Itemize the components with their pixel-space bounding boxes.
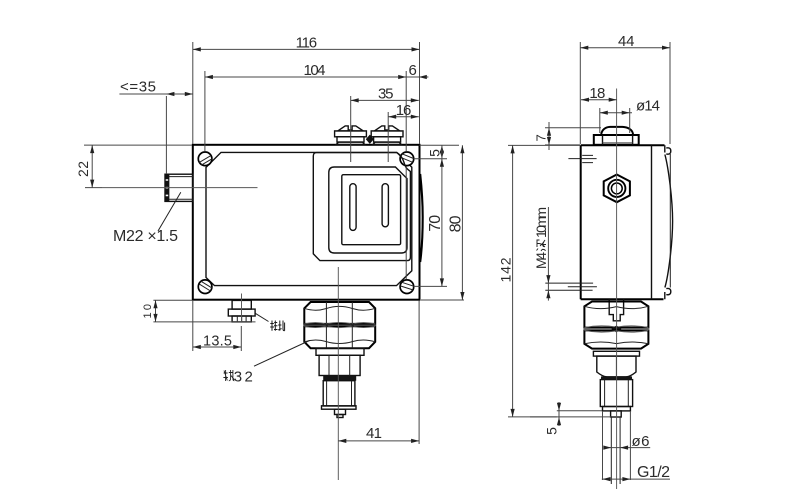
dim G1/2 <box>602 411 670 481</box>
svg-text:<=35: <=35 <box>120 79 156 96</box>
dim le35 cable gland <box>119 79 192 175</box>
side washer <box>593 351 639 356</box>
tube centerline <box>102 187 258 189</box>
dim 5 top right <box>414 145 459 159</box>
washer below nuts front <box>316 348 364 355</box>
hex nut 2 front <box>304 324 375 349</box>
dim 44 <box>580 33 670 144</box>
svg-text:13.5: 13.5 <box>203 333 232 349</box>
hex nut 1 front <box>304 302 375 324</box>
side cap dome <box>601 127 633 135</box>
dim 22 <box>75 145 192 188</box>
dim 6 <box>406 62 428 79</box>
svg-text:ø6: ø6 <box>632 433 650 450</box>
svg-text:G1/2: G1/2 <box>637 464 670 481</box>
svg-text:22: 22 <box>75 161 91 177</box>
svg-text:142: 142 <box>497 257 513 282</box>
port nub front <box>335 409 346 417</box>
label M22 x1.5 <box>113 228 178 245</box>
switch cover <box>313 153 410 261</box>
dim M4 depth 10mm <box>533 207 551 301</box>
label jiedi (ground) <box>270 321 284 331</box>
screw top-left <box>198 152 212 166</box>
body outline front view <box>193 145 420 300</box>
svg-text:7: 7 <box>534 134 549 141</box>
stem below side body <box>609 299 623 321</box>
side centerline <box>616 89 618 490</box>
side cover flap arc <box>665 145 673 299</box>
cap screw right <box>371 126 403 145</box>
DIMENSIONS <box>75 33 670 481</box>
dim o14 <box>600 98 660 133</box>
leader ground label <box>256 313 269 321</box>
svg-text:M22 ×1.5: M22 ×1.5 <box>113 228 178 245</box>
svg-text:35: 35 <box>378 86 394 103</box>
terminal diamond between caps <box>366 135 374 144</box>
bottom centerline front <box>337 267 339 480</box>
front panel with chamfered corners <box>206 152 412 285</box>
terminal marks lower left <box>545 283 597 290</box>
pipe o6 <box>611 417 620 484</box>
dim 116 <box>193 35 420 144</box>
window outer frame <box>329 167 407 253</box>
ground terminal centerline <box>241 294 243 323</box>
screw bottom-right <box>400 280 414 294</box>
svg-text:M4: M4 <box>533 252 549 269</box>
side threaded port <box>600 380 632 407</box>
svg-text:116: 116 <box>296 35 318 52</box>
side hex nut 1 <box>584 302 648 328</box>
side hex shaft <box>597 356 636 377</box>
svg-text:41: 41 <box>366 425 382 442</box>
dim 18 <box>581 85 617 102</box>
svg-text:44: 44 <box>618 33 635 50</box>
leader duibian32 <box>254 341 310 367</box>
side cap brim <box>594 135 639 145</box>
gasket dark band front <box>323 376 356 381</box>
svg-text:18: 18 <box>589 85 605 102</box>
terminal marks upper left <box>568 155 596 162</box>
dim 10 <box>142 300 256 322</box>
right side seal bulge <box>420 174 423 262</box>
window inner recess <box>342 175 401 245</box>
dark diamond between side nuts <box>611 326 621 333</box>
svg-text:5: 5 <box>544 427 560 435</box>
svg-text:ø14: ø14 <box>636 98 660 115</box>
slot right <box>382 184 388 227</box>
leader M22 <box>158 192 181 231</box>
dim 104 <box>205 62 406 279</box>
side body outline <box>581 145 665 299</box>
svg-text:16: 16 <box>396 102 412 119</box>
M22 conduit tube <box>165 174 193 201</box>
svg-text:104: 104 <box>304 62 326 79</box>
dim 70 <box>414 145 447 286</box>
side port flange <box>603 407 631 411</box>
dim 35 top <box>351 86 419 162</box>
slot left <box>350 184 356 231</box>
ground terminal screw <box>228 300 255 322</box>
dim 5 side <box>530 402 602 435</box>
threaded port front <box>323 381 355 406</box>
dim 41 <box>338 300 419 444</box>
svg-text:6: 6 <box>409 62 417 79</box>
cap screw left <box>335 126 367 145</box>
svg-text:70: 70 <box>427 215 444 232</box>
svg-text:80: 80 <box>447 215 464 232</box>
label duibian 32 (across flats 32) <box>223 368 252 385</box>
dim 80 <box>421 145 465 300</box>
dim 142 <box>497 145 611 417</box>
hex shaft front <box>319 355 360 375</box>
side hex nut 2 <box>584 330 648 348</box>
FRONT-VIEW-PARTS <box>102 126 423 480</box>
svg-text:10mm: 10mm <box>533 207 549 238</box>
svg-text:5: 5 <box>427 149 443 157</box>
dim 7 <box>534 122 602 150</box>
screw top-right <box>400 152 414 166</box>
side nub <box>611 411 622 417</box>
SIDE-VIEW-PARTS <box>545 89 672 490</box>
dim o6 <box>603 433 650 450</box>
side gasket dark band <box>601 376 632 379</box>
screw bottom-left <box>198 280 212 294</box>
dim 13.5 <box>193 300 242 351</box>
port end flange front <box>322 406 357 409</box>
dim 16 <box>388 102 419 162</box>
hex bolt on side face <box>604 175 630 203</box>
